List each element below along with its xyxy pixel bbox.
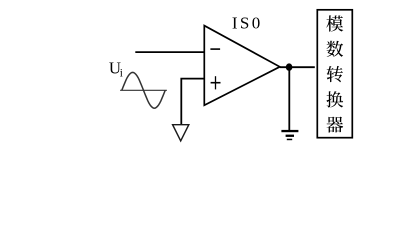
wire: inverting input [135,51,204,53]
label 转 (zhuan) [327,66,343,82]
label 换 (huan) [326,91,343,107]
label 数 (shu) [326,41,343,57]
op-amp inverting input marker "-" [210,48,220,50]
op-amp U1 (ISO isolation amplifier triangle) [204,26,279,106]
ground GND1 (open triangle, signal ground) [173,125,189,141]
wire: op-amp output to ADC block [280,66,315,68]
op-amp non-inverting input marker "+" [211,76,221,89]
label 器 (qi) [326,117,343,133]
AC signal source (sine wave symbol) [120,72,167,108]
ground GND2 (earth ground bars) [281,130,298,140]
node: output junction dot [286,63,293,70]
wire: non-inverting input (L-shape) [181,79,204,125]
label 模 (mo) [326,15,343,31]
svg-text:IS0: IS0 [232,13,263,32]
ADC block (rectangle) [317,10,352,138]
svg-text:i: i [120,68,123,80]
wire: output node down to earth ground [288,67,290,130]
